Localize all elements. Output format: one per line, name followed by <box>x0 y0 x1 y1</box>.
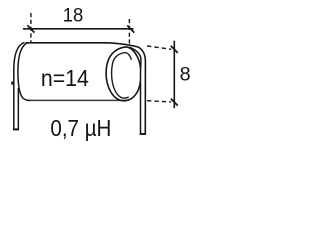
svg-text:0,7 µH: 0,7 µH <box>50 115 111 141</box>
svg-text:8: 8 <box>180 64 191 86</box>
svg-text:18: 18 <box>63 4 84 26</box>
svg-text:n=14: n=14 <box>41 65 89 91</box>
